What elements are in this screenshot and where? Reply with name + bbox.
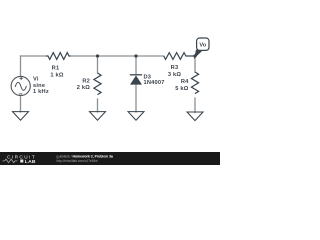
svg-text:R2: R2 xyxy=(82,78,90,84)
svg-text:1N4007: 1N4007 xyxy=(144,80,165,86)
svg-text:2 kΩ: 2 kΩ xyxy=(77,85,91,91)
svg-text:3 kΩ: 3 kΩ xyxy=(168,72,182,78)
svg-text:LAB: LAB xyxy=(25,159,36,165)
svg-text:Vo: Vo xyxy=(199,42,206,48)
svg-text:R3: R3 xyxy=(171,65,179,71)
svg-text:http://circuitlab.com/c17e54w: http://circuitlab.com/c17e54w xyxy=(57,159,99,163)
svg-text:1 kΩ: 1 kΩ xyxy=(50,72,64,78)
svg-text:1 kHz: 1 kHz xyxy=(33,89,49,95)
svg-text:R1: R1 xyxy=(52,66,60,72)
svg-text:Vi: Vi xyxy=(33,76,39,82)
svg-text:5 kΩ: 5 kΩ xyxy=(175,86,189,92)
svg-text:R4: R4 xyxy=(181,79,189,85)
svg-text:g.anders / Homework 3, Problem: g.anders / Homework 3, Problem 3a xyxy=(57,154,113,158)
